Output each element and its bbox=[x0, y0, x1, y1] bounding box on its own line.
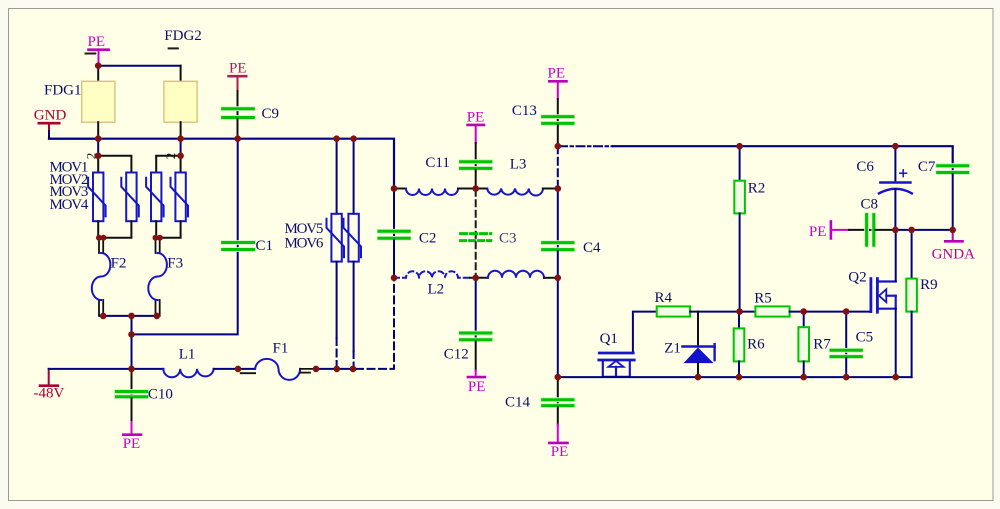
wire node top to FDG2 bbox=[98, 65, 180, 67]
wire MOV1 bottom bbox=[97, 221, 99, 238]
svg-text:Q2: Q2 bbox=[848, 270, 866, 286]
power port GNDA bbox=[932, 230, 975, 263]
zener diode Z1 bbox=[664, 312, 714, 378]
svg-text:C9: C9 bbox=[262, 106, 280, 122]
svg-text:GNDA: GNDA bbox=[932, 247, 975, 263]
svg-text:R9: R9 bbox=[920, 277, 938, 293]
svg-text:L2: L2 bbox=[428, 282, 445, 298]
svg-text:L1: L1 bbox=[179, 347, 196, 363]
varistor MOV2 bbox=[121, 173, 139, 222]
power port PE (top left) bbox=[88, 34, 109, 66]
svg-text:C5: C5 bbox=[856, 329, 874, 345]
wire bottom right rail bbox=[558, 376, 912, 378]
junctions top bus bbox=[95, 135, 102, 142]
wire fuse bottoms bbox=[100, 315, 159, 317]
capacitor C1 bbox=[223, 139, 273, 255]
resistor R5 bbox=[740, 290, 847, 316]
junctions C8 node row bbox=[892, 227, 899, 234]
svg-text:PE: PE bbox=[123, 436, 141, 452]
svg-text:-48V: -48V bbox=[34, 386, 65, 402]
capacitor C7 bbox=[918, 159, 968, 230]
svg-text:R6: R6 bbox=[747, 336, 765, 352]
inductor L2 left winding (dashed) bbox=[394, 271, 470, 278]
FDG pin-2 numbers bbox=[84, 153, 179, 160]
svg-text:FDG2: FDG2 bbox=[164, 28, 202, 44]
junctions left rail bbox=[128, 366, 135, 373]
svg-text:C6: C6 bbox=[856, 159, 874, 175]
transistor Q2 (MOSFET) bbox=[846, 230, 896, 377]
varistor MOV1 bbox=[88, 173, 106, 222]
capacitor C4 bbox=[543, 189, 601, 278]
resistor R6 bbox=[734, 312, 765, 378]
svg-text:C14: C14 bbox=[505, 395, 531, 411]
power port PE (C12 bottom) bbox=[468, 371, 486, 396]
fuse F3 bbox=[148, 238, 183, 316]
svg-text:C12: C12 bbox=[444, 347, 469, 363]
wire bus to MOV row right bbox=[180, 139, 182, 156]
svg-text:R2: R2 bbox=[748, 180, 766, 196]
wire node B down to rail bbox=[131, 334, 133, 369]
svg-text:C11: C11 bbox=[425, 155, 449, 171]
wire rail -48V to L1 bbox=[49, 368, 164, 370]
wire C8 node row bbox=[895, 229, 952, 231]
svg-text:L3: L3 bbox=[510, 157, 527, 173]
labels MOV5 MOV6 bbox=[285, 221, 324, 251]
wire rail dashed to corner bbox=[356, 278, 394, 369]
capacitor C8 bbox=[849, 196, 895, 245]
capacitor C13 bbox=[512, 103, 573, 146]
wire MOV2 bottom bbox=[103, 221, 131, 238]
svg-text:R4: R4 bbox=[655, 290, 673, 306]
svg-text:PE: PE bbox=[88, 34, 106, 50]
wire MOV4 bottom bbox=[160, 221, 181, 238]
svg-text:PE: PE bbox=[809, 224, 827, 240]
junctions L3 row bbox=[391, 185, 398, 192]
junctions bottom right rail bbox=[555, 374, 562, 381]
varistor MOV3 bbox=[146, 173, 164, 222]
junction node B bbox=[128, 331, 135, 338]
svg-text:PE: PE bbox=[551, 444, 569, 460]
wire C4 node down to rail bbox=[557, 278, 559, 377]
junctions MOV bottom row bbox=[96, 235, 102, 241]
svg-text:C2: C2 bbox=[419, 231, 437, 247]
wire GND to bus bbox=[49, 131, 98, 139]
power port GND bbox=[34, 108, 67, 132]
power port PE (C11 top) bbox=[467, 109, 485, 160]
resistor R7 bbox=[798, 312, 831, 378]
inductor L3 left winding bbox=[394, 188, 406, 190]
power port PE (C10 bottom) bbox=[123, 422, 141, 452]
wire rail F1 to MOV6 bbox=[316, 368, 356, 370]
capacitor C3 (ghosted) bbox=[461, 190, 517, 278]
svg-text:PE: PE bbox=[467, 109, 485, 125]
junction PE/FDG1 top bbox=[95, 62, 102, 69]
wire right bus bbox=[613, 146, 953, 164]
svg-text:C13: C13 bbox=[512, 103, 537, 119]
labels MOV1-MOV4 bbox=[50, 160, 89, 213]
junctions L2 row bbox=[391, 275, 398, 282]
inductor L3 right winding bbox=[487, 189, 543, 196]
varistor MOV6 bbox=[344, 139, 362, 369]
power port -48V bbox=[34, 369, 65, 402]
wire dashed C13 node down bbox=[557, 146, 559, 188]
wire node B to C1 bottom bbox=[132, 251, 238, 335]
svg-text:PE: PE bbox=[468, 379, 486, 395]
capacitor C12 bbox=[444, 278, 491, 371]
svg-text:Q1: Q1 bbox=[600, 331, 618, 347]
junctions mid row bbox=[736, 308, 743, 315]
capacitor C14 bbox=[505, 377, 573, 424]
svg-text:R5: R5 bbox=[754, 290, 772, 306]
svg-text:GND: GND bbox=[34, 108, 67, 124]
wire top bus bbox=[49, 139, 394, 189]
FDG1 pin-1 number mark bbox=[86, 53, 96, 55]
capacitor C11 bbox=[425, 155, 490, 188]
svg-text:F1: F1 bbox=[273, 340, 289, 356]
wire MOV3/MOV4 top bbox=[156, 156, 180, 173]
junctions MOV top row bbox=[95, 153, 102, 160]
power port PE (C13 top) bbox=[548, 66, 567, 116]
capacitor C5 bbox=[831, 312, 873, 378]
wire down to node B bbox=[131, 316, 133, 335]
power port PE (C14 bottom) bbox=[549, 425, 568, 461]
svg-text:Z1: Z1 bbox=[664, 340, 681, 356]
junction C13 node bbox=[555, 143, 562, 150]
wire L1 to F1 bbox=[214, 368, 255, 370]
svg-text:C1: C1 bbox=[256, 238, 274, 254]
resistor R9 bbox=[906, 230, 937, 377]
svg-text:F3: F3 bbox=[167, 255, 183, 271]
resistor R4 bbox=[655, 290, 740, 317]
capacitor C9 bbox=[223, 106, 279, 139]
transistor Q1 (MOSFET) bbox=[599, 331, 634, 377]
inductor L1 bbox=[163, 347, 213, 378]
svg-text:C10: C10 bbox=[148, 387, 173, 403]
svg-text:C8: C8 bbox=[861, 196, 879, 212]
wire bus to MOV row left bbox=[97, 139, 99, 156]
wire MOV1/MOV2 top bbox=[98, 156, 131, 173]
svg-text:C4: C4 bbox=[583, 240, 601, 256]
varistor MOV4 bbox=[171, 173, 189, 222]
junctions fuse bottom row bbox=[100, 313, 107, 320]
wire dash-dot C13 node to right bus bbox=[559, 145, 613, 147]
svg-text:PE: PE bbox=[229, 61, 247, 77]
power port PE (C8 left) bbox=[809, 221, 849, 240]
fuse F2 bbox=[92, 238, 127, 316]
svg-text:MOV4: MOV4 bbox=[50, 197, 89, 213]
power port PE (C9 top) bbox=[229, 61, 247, 108]
svg-text:FDG1: FDG1 bbox=[44, 82, 82, 98]
wire mid row R4 left to Q1 gate bbox=[633, 312, 657, 353]
varistor MOV5 bbox=[327, 139, 345, 369]
gas discharge tube FDG2 bbox=[164, 28, 202, 139]
resistor R2 bbox=[734, 146, 765, 311]
svg-text:C7: C7 bbox=[918, 159, 936, 175]
capacitor C2 bbox=[379, 189, 436, 278]
svg-text:C3: C3 bbox=[499, 231, 517, 247]
wire MOV3 bottom bbox=[155, 221, 157, 238]
svg-text:PE: PE bbox=[548, 66, 566, 82]
capacitor C10 bbox=[116, 369, 173, 422]
gas discharge tube FDG1 bbox=[44, 66, 115, 139]
capacitor C6 (polarized) bbox=[856, 146, 912, 230]
svg-text:F2: F2 bbox=[111, 255, 127, 271]
inductor L2 right winding bbox=[470, 277, 488, 279]
junctions right bus bbox=[736, 143, 743, 150]
fuse F1 bbox=[241, 340, 316, 380]
svg-text:R7: R7 bbox=[813, 336, 831, 352]
svg-text:MOV6: MOV6 bbox=[285, 236, 324, 252]
